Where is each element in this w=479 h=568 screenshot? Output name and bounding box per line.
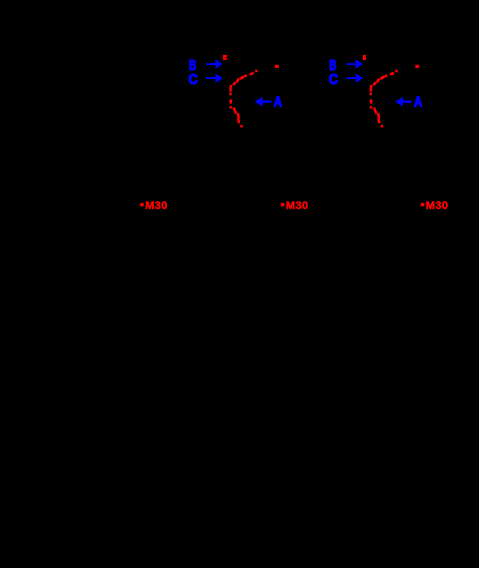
svg-text:M30: M30 [426,200,449,212]
svg-text:M30: M30 [286,200,309,212]
svg-text:M30: M30 [145,200,168,212]
svg-text:A: A [414,95,423,111]
svg-text:C: C [188,72,198,88]
svg-text:A: A [274,95,283,111]
svg-text:C: C [329,72,339,88]
